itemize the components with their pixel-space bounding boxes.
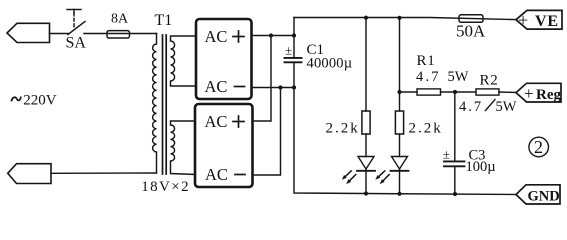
svg-text:4.7: 4.7 (459, 99, 483, 115)
node dot C (minus rail) (278, 85, 282, 89)
svg-text:AC: AC (205, 27, 228, 46)
LED D2 (375, 157, 408, 194)
wire primary to P2 (51, 172, 157, 174)
svg-text:5W: 5W (496, 99, 517, 115)
node dot I (R1 tap) (397, 90, 401, 94)
fuse FU2 50A (459, 15, 483, 22)
capacitor C1 (285, 36, 302, 88)
resistor R3 2.2k (left LED branch) (362, 18, 370, 157)
svg-text:AC: AC (205, 112, 228, 131)
node dot A (U1+/U2+ tie) (269, 33, 273, 37)
label 2.2k right (409, 121, 443, 137)
wire left riser and bottom rail (294, 18, 516, 195)
label R1 (417, 53, 436, 69)
connector +VE (516, 10, 562, 30)
svg-text:50A: 50A (456, 22, 486, 41)
wire R1 to node (441, 91, 477, 93)
svg-text:±: ± (285, 43, 292, 58)
wire R2 to +Reg (499, 91, 516, 94)
label R2 (480, 73, 499, 89)
bridge rectifier U1 (196, 19, 252, 99)
svg-text:4.7: 4.7 (416, 69, 441, 85)
wire U2 plus riser (253, 36, 272, 122)
node dot J (C3 tap) (453, 90, 457, 94)
svg-text:5W: 5W (448, 69, 469, 85)
wire switch to fuse (84, 33, 157, 35)
node dot D (C1 bottom) (292, 85, 296, 89)
svg-text:2: 2 (534, 137, 543, 157)
node dot G (bottom rail LED1) (364, 191, 368, 195)
node dot E (top rail LED1) (364, 16, 368, 20)
label R1 value (416, 69, 469, 85)
switch SA (67, 10, 85, 35)
svg-text:8A: 8A (111, 11, 129, 26)
label T1 (155, 12, 173, 29)
label C1 value (307, 42, 353, 72)
connector GND (516, 185, 560, 205)
node dot B (C1 top) (292, 33, 296, 37)
svg-text:AC: AC (205, 165, 228, 184)
LED D1 (342, 157, 375, 194)
circled figure number 2 (529, 137, 549, 157)
svg-text:40000µ: 40000µ (307, 56, 353, 72)
fuse FU1 8A (107, 31, 130, 38)
resistor R4 2.2k (right LED branch) (395, 18, 403, 157)
resistor R2 (476, 89, 499, 95)
svg-text:2.2k: 2.2k (326, 121, 360, 137)
transformer core (163, 35, 167, 174)
svg-text:±: ± (443, 147, 450, 162)
label 18V×2 (141, 179, 190, 195)
label 8A (111, 11, 129, 26)
svg-text:R1: R1 (417, 53, 436, 69)
connector P1 (AC input top) (7, 23, 50, 42)
transformer T1 primary winding (153, 34, 157, 174)
resistor R1 (417, 89, 441, 95)
label 50A (456, 22, 486, 41)
transformer secondary winding W1 (171, 36, 197, 86)
svg-text:2.2k: 2.2k (409, 121, 443, 137)
svg-text:100µ: 100µ (466, 159, 496, 175)
wire P1 to switch (50, 33, 69, 35)
label R2 value (459, 99, 517, 115)
transformer secondary winding W2 (171, 121, 196, 175)
wire R1 row (400, 91, 418, 93)
svg-text:GND: GND (528, 189, 560, 205)
svg-text:18V×2: 18V×2 (141, 179, 190, 195)
node dot H (bottom rail LED2) (397, 192, 401, 196)
wire top rail (294, 18, 516, 20)
svg-text:SA: SA (66, 35, 87, 52)
svg-text:R2: R2 (480, 73, 499, 89)
label SA (66, 35, 87, 52)
svg-text:+: + (518, 10, 528, 30)
connector P2 (AC input bottom) (8, 164, 51, 184)
node dot K (C3 bottom) (453, 192, 457, 196)
connector +Reg (516, 83, 561, 103)
svg-text:Reg: Reg (536, 87, 561, 103)
svg-text:+: + (524, 84, 534, 103)
label ~220V (12, 92, 57, 108)
svg-text:220V: 220V (23, 92, 57, 108)
capacitor C3 (443, 92, 465, 194)
svg-text:AC: AC (205, 77, 228, 96)
bridge rectifier U2 (195, 104, 253, 187)
wire U2 minus riser (253, 88, 281, 176)
svg-text:T1: T1 (155, 12, 173, 29)
label C3 value (466, 148, 496, 176)
node dot F (top rail LED2) (397, 16, 401, 20)
wire U1 minus output (252, 87, 295, 89)
svg-text:VE: VE (535, 13, 559, 30)
wire U1 plus output (252, 35, 295, 37)
label 2.2k left (326, 121, 360, 137)
